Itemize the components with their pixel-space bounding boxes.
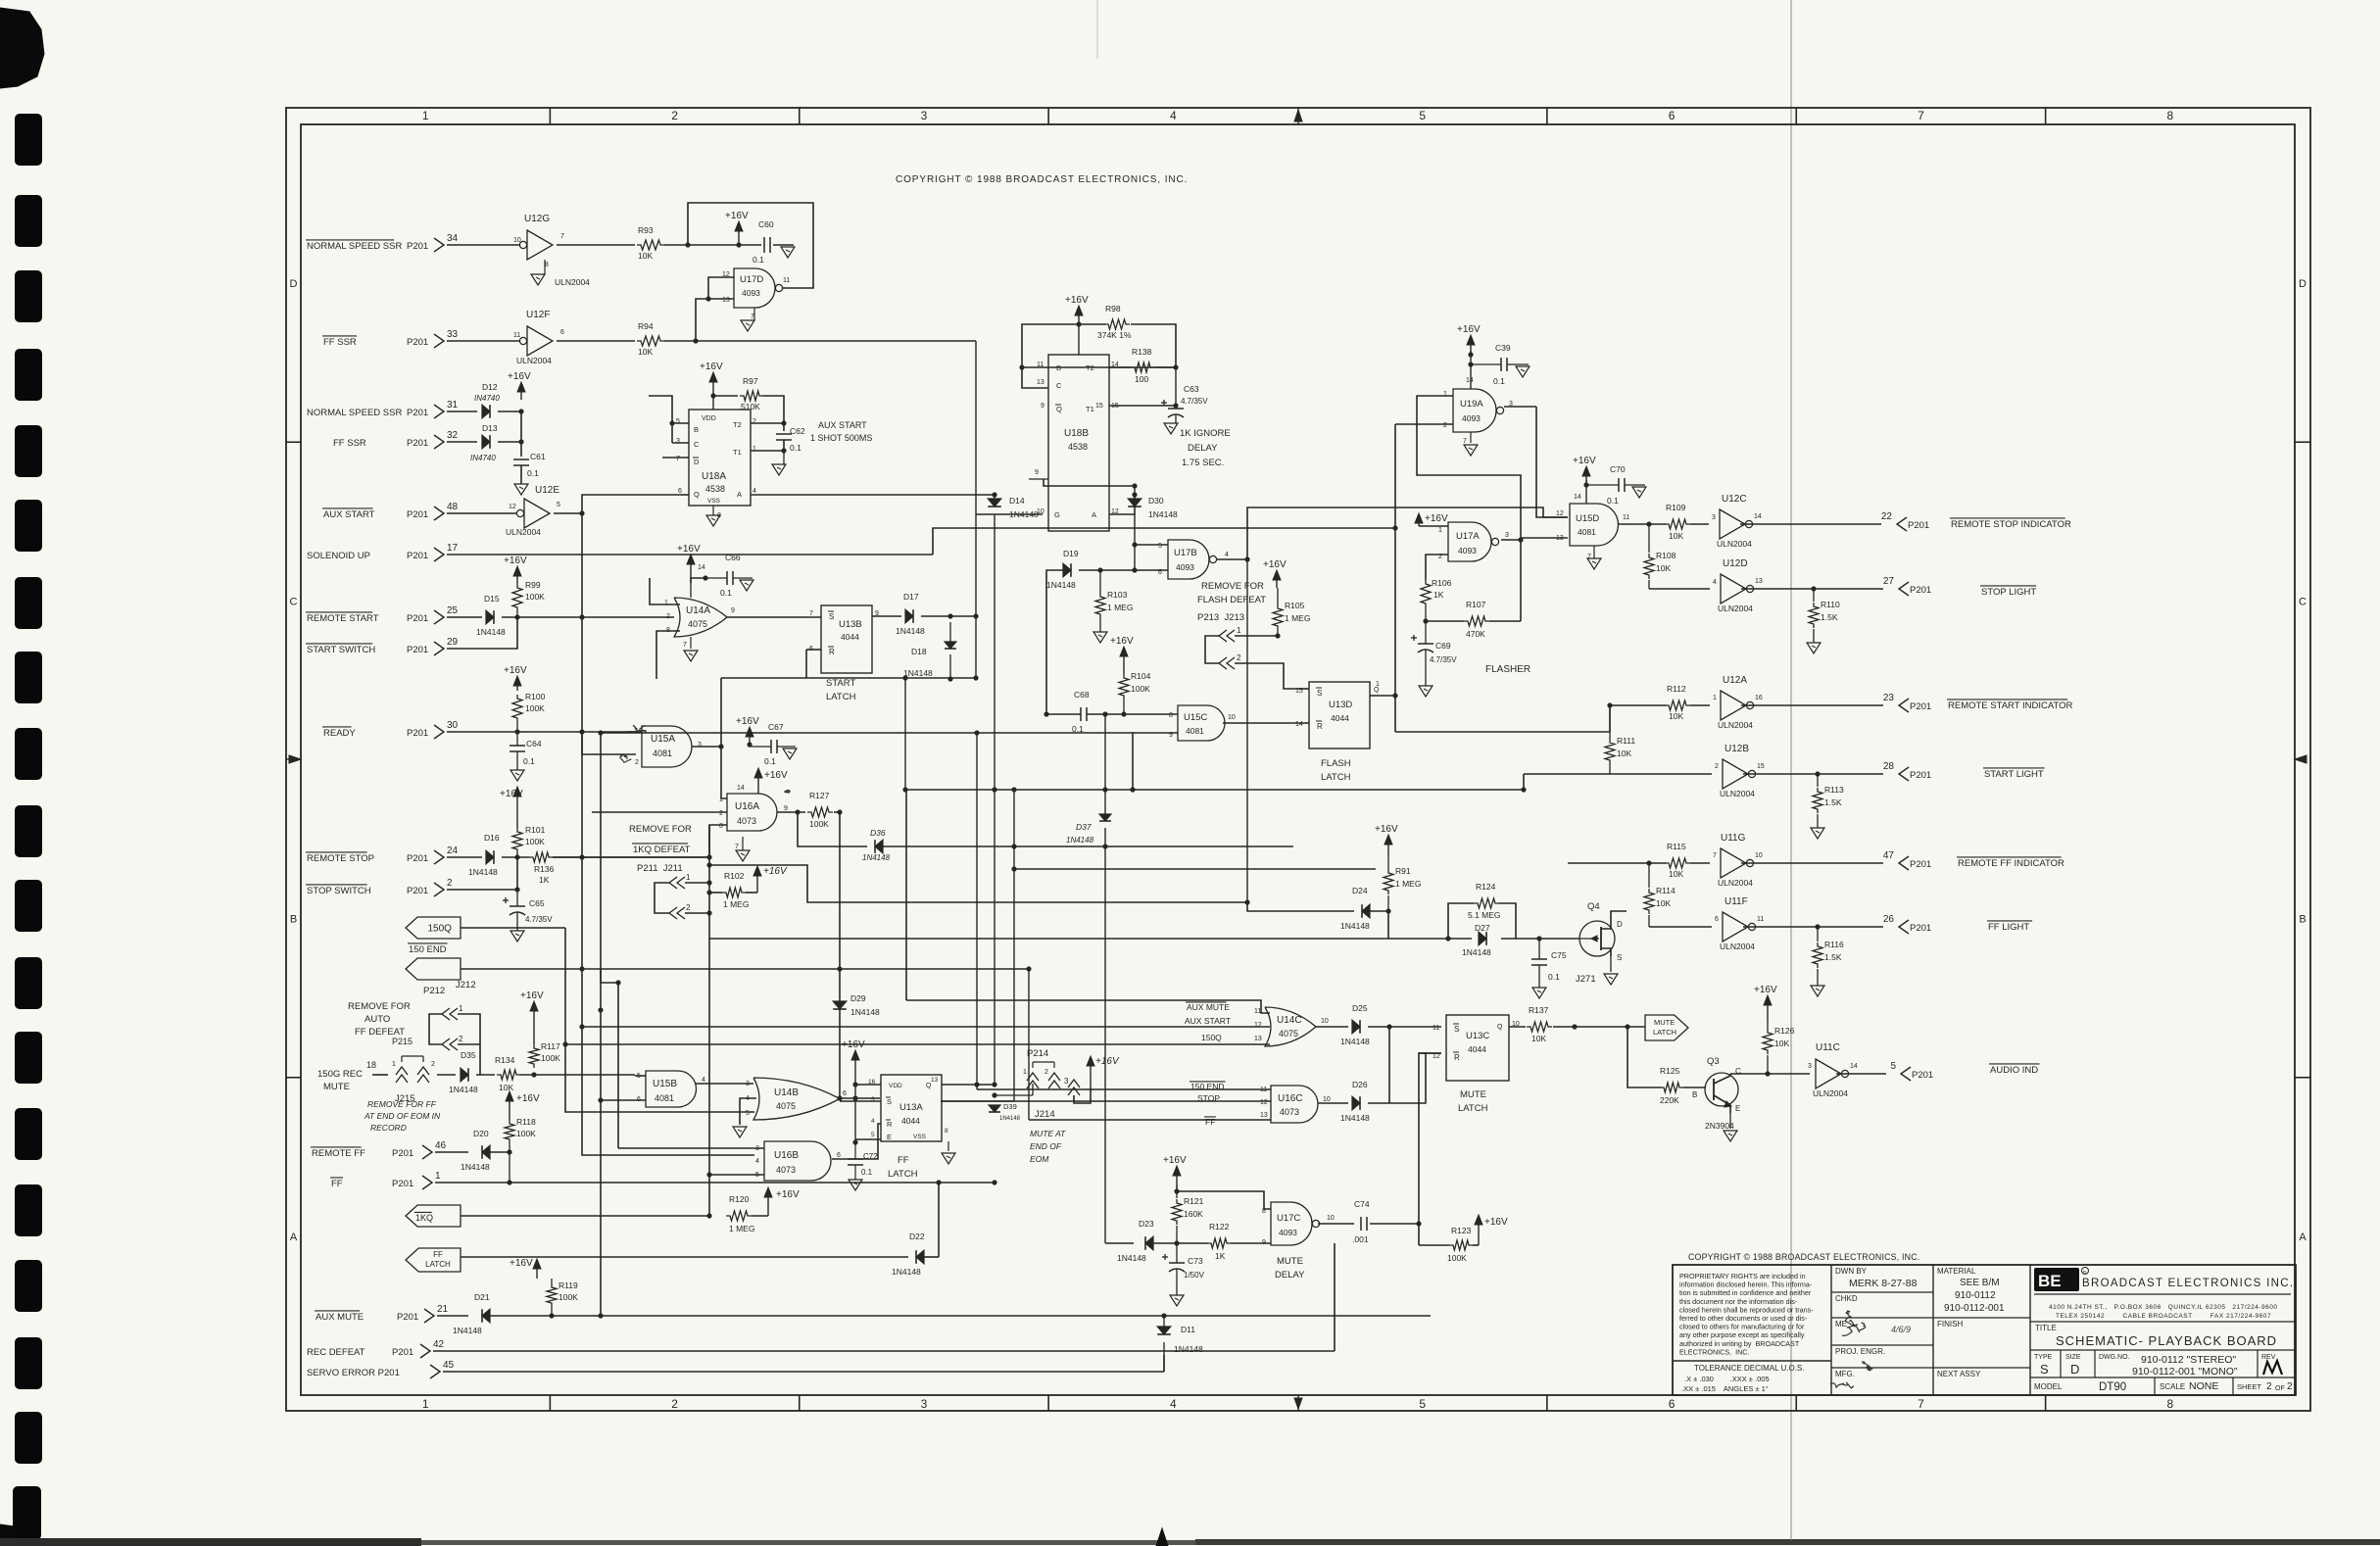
svg-text:100: 100 (1135, 374, 1148, 384)
svg-text:U17A: U17A (1456, 531, 1480, 542)
svg-text:+16V: +16V (776, 1189, 800, 1200)
svg-text:1N4148: 1N4148 (1462, 947, 1491, 957)
svg-text:C73: C73 (1188, 1256, 1203, 1266)
svg-text:U13C: U13C (1466, 1031, 1489, 1041)
svg-text:D39: D39 (1003, 1102, 1017, 1111)
svg-text:0.1: 0.1 (1607, 496, 1619, 506)
svg-text:15: 15 (1757, 763, 1765, 770)
svg-text:R99: R99 (525, 580, 541, 590)
svg-text:2: 2 (719, 810, 723, 817)
svg-text:14: 14 (737, 785, 745, 792)
svg-text:S: S (2040, 1362, 2049, 1377)
svg-text:FINISH: FINISH (1937, 1320, 1963, 1329)
svg-text:J214: J214 (1035, 1109, 1055, 1120)
svg-text:5.1 MEG: 5.1 MEG (1468, 910, 1501, 920)
svg-text:0.1: 0.1 (764, 756, 776, 766)
svg-text:J212: J212 (456, 980, 476, 990)
svg-text:3: 3 (1505, 532, 1509, 539)
svg-text:E: E (1735, 1104, 1740, 1113)
svg-text:FF SSR: FF SSR (323, 337, 357, 348)
svg-text:B: B (290, 914, 297, 926)
svg-text:13: 13 (1254, 1036, 1262, 1042)
svg-text:ULN2004: ULN2004 (1720, 942, 1755, 951)
svg-text:3: 3 (746, 1081, 750, 1087)
svg-text:100K: 100K (525, 592, 545, 602)
svg-text:4075: 4075 (776, 1101, 796, 1111)
svg-text:13: 13 (722, 297, 730, 304)
svg-text:U12A: U12A (1723, 675, 1747, 686)
svg-text:S: S (829, 612, 834, 621)
svg-text:P201: P201 (1910, 859, 1931, 870)
svg-text:9: 9 (731, 607, 735, 614)
svg-text:C: C (290, 596, 298, 607)
svg-text:4075: 4075 (688, 619, 707, 629)
svg-text:1N4148: 1N4148 (461, 1162, 490, 1172)
svg-text:6: 6 (1669, 109, 1676, 122)
svg-text:G: G (1054, 510, 1060, 519)
svg-text:4/6/9: 4/6/9 (1891, 1325, 1911, 1334)
svg-text:SCHEMATIC- PLAYBACK BOARD: SCHEMATIC- PLAYBACK BOARD (2056, 1333, 2277, 1348)
svg-text:T1: T1 (1086, 405, 1094, 413)
svg-text:1: 1 (686, 873, 691, 882)
svg-text:AUX START: AUX START (818, 420, 867, 430)
svg-text:1K IGNORE: 1K IGNORE (1180, 428, 1231, 439)
svg-text:R134: R134 (495, 1055, 515, 1065)
svg-text:4044: 4044 (901, 1116, 920, 1126)
svg-text:1N4148: 1N4148 (862, 853, 891, 862)
svg-text:3: 3 (676, 438, 680, 445)
svg-text:R: R (1317, 722, 1323, 731)
svg-text:2: 2 (1443, 422, 1447, 429)
svg-text:U12G: U12G (524, 214, 550, 224)
svg-text:24: 24 (447, 845, 459, 856)
svg-text:+16V: +16V (1425, 513, 1448, 524)
svg-text:ULN2004: ULN2004 (506, 527, 541, 537)
svg-text:U12E: U12E (535, 485, 559, 496)
svg-text:1: 1 (422, 1397, 429, 1411)
svg-text:1: 1 (1023, 1069, 1027, 1076)
svg-text:910-0112-001: 910-0112-001 (1944, 1303, 2005, 1314)
svg-text:OF: OF (2275, 1385, 2285, 1392)
svg-text:D27: D27 (1475, 923, 1490, 933)
svg-text:8: 8 (2166, 109, 2173, 122)
svg-text:R119: R119 (559, 1280, 578, 1290)
svg-text:C72: C72 (863, 1152, 878, 1161)
svg-text:1N4148: 1N4148 (453, 1326, 482, 1335)
svg-text:DELAY: DELAY (1188, 443, 1218, 454)
svg-text:4.7/35V: 4.7/35V (1430, 655, 1457, 664)
svg-text:MUTE: MUTE (1277, 1256, 1303, 1267)
svg-text:NONE: NONE (2189, 1380, 2218, 1392)
svg-text:7: 7 (809, 610, 813, 617)
svg-text:4: 4 (1225, 552, 1229, 558)
svg-text:+16V: +16V (677, 544, 701, 555)
svg-text:DELAY: DELAY (1275, 1270, 1305, 1280)
svg-text:3: 3 (921, 1397, 928, 1411)
svg-text:23: 23 (1883, 693, 1895, 703)
svg-text:REMOVE FOR: REMOVE FOR (348, 1001, 411, 1012)
svg-text:8: 8 (1169, 712, 1173, 719)
svg-text:R104: R104 (1131, 671, 1151, 681)
svg-text:FLASHER: FLASHER (1485, 664, 1530, 675)
svg-text:0.1: 0.1 (523, 756, 535, 766)
svg-text:R108: R108 (1656, 551, 1676, 560)
svg-text:+16V: +16V (725, 211, 749, 221)
svg-text:2: 2 (1715, 763, 1719, 770)
svg-text:+16V: +16V (764, 770, 788, 781)
svg-text:P214: P214 (1027, 1048, 1048, 1059)
svg-text:D22: D22 (909, 1232, 925, 1241)
svg-text:10: 10 (1327, 1215, 1335, 1222)
svg-text:E: E (887, 1133, 892, 1141)
svg-text:2: 2 (1044, 1069, 1048, 1076)
svg-text:SEE B/M: SEE B/M (1960, 1278, 2000, 1288)
svg-text:3: 3 (1064, 1077, 1069, 1086)
svg-text:5: 5 (1419, 109, 1426, 122)
svg-text:10K: 10K (1617, 749, 1631, 758)
svg-text:B: B (1692, 1090, 1697, 1099)
svg-text:4073: 4073 (776, 1165, 796, 1175)
svg-text:10K: 10K (638, 347, 653, 357)
svg-text:C63: C63 (1184, 384, 1199, 394)
svg-text:17: 17 (447, 543, 459, 554)
svg-text:R126: R126 (1774, 1026, 1795, 1036)
svg-text:25: 25 (447, 605, 459, 616)
svg-text:AUX MUTE: AUX MUTE (316, 1312, 364, 1323)
svg-text:P201: P201 (1908, 520, 1929, 531)
svg-text:100K: 100K (541, 1053, 560, 1063)
svg-text:R109: R109 (1666, 503, 1686, 512)
svg-text:C67: C67 (768, 722, 784, 732)
svg-text:+16V: +16V (736, 716, 759, 727)
svg-text:150Q: 150Q (1201, 1033, 1222, 1042)
svg-text:Q3: Q3 (1707, 1056, 1720, 1067)
svg-text:FF: FF (331, 1179, 343, 1189)
svg-text:1: 1 (435, 1171, 441, 1182)
svg-text:LATCH: LATCH (1653, 1028, 1676, 1037)
svg-text:D18: D18 (911, 647, 927, 656)
svg-text:SHEET: SHEET (2237, 1382, 2261, 1391)
svg-text:REMOTE START: REMOTE START (307, 613, 379, 624)
svg-text:2: 2 (671, 109, 678, 122)
svg-text:3: 3 (698, 742, 702, 749)
svg-text:R116: R116 (1824, 940, 1844, 949)
svg-text:4044: 4044 (1468, 1044, 1486, 1054)
svg-text:160K: 160K (1184, 1209, 1203, 1219)
svg-text:4538: 4538 (705, 484, 725, 494)
svg-text:R101: R101 (525, 825, 546, 835)
svg-text:Q: Q (1497, 1024, 1503, 1031)
svg-text:4075: 4075 (1279, 1029, 1298, 1039)
svg-text:4081: 4081 (1578, 527, 1596, 537)
svg-text:R137: R137 (1529, 1005, 1549, 1015)
svg-text:AUX MUTE: AUX MUTE (1187, 1002, 1230, 1012)
svg-text:ULN2004: ULN2004 (555, 277, 590, 287)
svg-text:8: 8 (719, 823, 723, 830)
svg-text:FF: FF (433, 1250, 443, 1259)
svg-text:SOLENOID UP: SOLENOID UP (307, 551, 370, 561)
svg-text:6: 6 (837, 1152, 841, 1159)
svg-text:1N4148: 1N4148 (1148, 509, 1178, 519)
svg-text:REMOTE STOP: REMOTE STOP (307, 853, 374, 864)
svg-text:14: 14 (1574, 494, 1581, 501)
svg-text:4073: 4073 (737, 816, 756, 826)
svg-text:10K: 10K (638, 251, 653, 261)
svg-text:100K: 100K (525, 703, 545, 713)
svg-text:2: 2 (2266, 1381, 2272, 1392)
svg-text:NORMAL SPEED SSR: NORMAL SPEED SSR (307, 241, 402, 252)
svg-text:R: R (829, 648, 835, 656)
svg-text:U17C: U17C (1277, 1213, 1300, 1224)
svg-text:R125: R125 (1660, 1066, 1680, 1076)
svg-text:START: START (826, 678, 855, 689)
svg-text:2: 2 (447, 878, 453, 889)
svg-text:MUTE: MUTE (1460, 1089, 1486, 1100)
svg-text:1N4148: 1N4148 (1340, 1037, 1370, 1046)
svg-text:1/50V: 1/50V (1184, 1271, 1205, 1280)
svg-text:C60: C60 (758, 219, 774, 229)
svg-text:R136: R136 (534, 864, 555, 874)
svg-text:+16V: +16V (500, 789, 523, 799)
svg-text:34: 34 (447, 233, 459, 244)
svg-text:ULN2004: ULN2004 (1813, 1088, 1848, 1098)
svg-text:U15A: U15A (651, 734, 675, 745)
svg-text:BE: BE (2038, 1272, 2062, 1290)
svg-text:REV: REV (2261, 1354, 2276, 1361)
svg-text:11: 11 (1757, 916, 1764, 923)
svg-text:S: S (1317, 689, 1322, 698)
svg-text:1: 1 (664, 600, 668, 606)
svg-text:10: 10 (1037, 508, 1044, 515)
svg-text:1N4148: 1N4148 (1066, 836, 1094, 845)
svg-text:12: 12 (1260, 1099, 1268, 1106)
svg-text:10: 10 (1228, 714, 1236, 721)
svg-text:+16V: +16V (1457, 324, 1481, 335)
svg-text:IN4740: IN4740 (474, 394, 500, 403)
svg-text:REC DEFEAT: REC DEFEAT (307, 1347, 365, 1358)
svg-text:U14A: U14A (686, 605, 710, 616)
svg-text:374K 1%: 374K 1% (1097, 330, 1132, 340)
svg-text:4: 4 (1170, 109, 1177, 122)
svg-text:1: 1 (1438, 527, 1442, 534)
svg-text:4073: 4073 (1280, 1107, 1299, 1117)
svg-text:U11F: U11F (1724, 896, 1748, 907)
svg-text:U13A: U13A (899, 1102, 923, 1113)
svg-text:1 MEG: 1 MEG (723, 899, 749, 909)
svg-text:R118: R118 (516, 1117, 536, 1127)
svg-text:2: 2 (666, 613, 670, 620)
svg-text:FF LIGHT: FF LIGHT (1988, 922, 2029, 933)
svg-text:5: 5 (676, 418, 680, 425)
svg-text:R94: R94 (638, 321, 654, 331)
svg-text:1 SHOT 500MS: 1 SHOT 500MS (810, 433, 872, 443)
svg-text:P201: P201 (407, 613, 428, 624)
svg-text:D14: D14 (1009, 496, 1025, 506)
svg-text:R107: R107 (1466, 600, 1486, 609)
svg-text:P201: P201 (1912, 1070, 1933, 1081)
svg-text:P201: P201 (1910, 770, 1931, 781)
svg-text:AUX START: AUX START (1185, 1016, 1231, 1026)
svg-text:FF: FF (898, 1155, 909, 1166)
svg-text:D25: D25 (1352, 1003, 1368, 1013)
svg-text:1N4148: 1N4148 (468, 867, 498, 877)
svg-text:R106: R106 (1432, 578, 1452, 588)
svg-text:4: 4 (871, 1118, 875, 1125)
svg-text:REMOTE STOP INDICATOR: REMOTE STOP INDICATOR (1951, 519, 2071, 530)
svg-text:30: 30 (447, 720, 459, 731)
svg-text:8: 8 (2166, 1397, 2173, 1411)
svg-text:ULN2004: ULN2004 (1720, 789, 1755, 798)
svg-text:P201: P201 (407, 337, 428, 348)
svg-text:D35: D35 (461, 1050, 476, 1060)
svg-text:LATCH: LATCH (888, 1169, 918, 1180)
svg-text:7: 7 (676, 456, 680, 462)
svg-text:R110: R110 (1821, 600, 1840, 609)
svg-text:R103: R103 (1107, 590, 1128, 600)
svg-text:D: D (1617, 920, 1623, 929)
svg-text:R: R (887, 1120, 893, 1129)
svg-text:6: 6 (1715, 916, 1719, 923)
svg-text:P201: P201 (407, 853, 428, 864)
svg-text:REMOTE START INDICATOR: REMOTE START INDICATOR (1948, 701, 2073, 711)
svg-text:P201: P201 (392, 1179, 413, 1189)
svg-text:VDD: VDD (889, 1083, 902, 1089)
svg-text:REMOTE FF: REMOTE FF (312, 1148, 365, 1159)
svg-text:100K: 100K (525, 837, 545, 846)
svg-text:U16B: U16B (774, 1150, 799, 1161)
svg-text:MFG.: MFG. (1835, 1370, 1855, 1378)
svg-text:R111: R111 (1617, 736, 1635, 746)
svg-text:0.1: 0.1 (1548, 972, 1560, 982)
svg-text:U14B: U14B (774, 1087, 799, 1098)
svg-text:P213 J213: P213 J213 (1197, 612, 1244, 623)
svg-text:P201: P201 (407, 886, 428, 896)
svg-text:150Q: 150Q (427, 924, 452, 935)
svg-text:CHKD: CHKD (1835, 1294, 1858, 1303)
svg-text:D36: D36 (870, 828, 886, 838)
svg-text:B: B (2299, 914, 2306, 926)
svg-text:7: 7 (560, 233, 564, 240)
svg-text:1: 1 (1443, 391, 1447, 398)
svg-text:D: D (694, 458, 700, 466)
svg-text:C66: C66 (725, 553, 741, 562)
svg-text:5: 5 (746, 1110, 750, 1117)
svg-text:1N4148: 1N4148 (892, 1267, 921, 1277)
svg-text:MODEL: MODEL (2034, 1382, 2063, 1391)
svg-text:DWG.NO.: DWG.NO. (2099, 1354, 2130, 1361)
svg-text:C65: C65 (529, 898, 545, 908)
svg-text:27: 27 (1883, 576, 1895, 587)
svg-text:1 MEG: 1 MEG (1395, 879, 1421, 889)
svg-text:18: 18 (366, 1060, 376, 1070)
svg-text:READY: READY (323, 728, 356, 739)
svg-text:10: 10 (1321, 1018, 1329, 1025)
svg-text:4.7/35V: 4.7/35V (525, 915, 553, 924)
svg-text:R113: R113 (1824, 785, 1844, 795)
svg-text:LATCH: LATCH (1321, 772, 1351, 783)
svg-text:Q: Q (1056, 405, 1062, 413)
svg-text:28: 28 (1883, 761, 1895, 772)
svg-text:0.1: 0.1 (720, 588, 732, 598)
svg-text:1.75 SEC.: 1.75 SEC. (1182, 458, 1224, 468)
svg-text:BROADCAST ELECTRONICS INC.: BROADCAST ELECTRONICS INC. (2082, 1278, 2294, 1289)
svg-text:5: 5 (1890, 1061, 1896, 1072)
svg-text:1 MEG: 1 MEG (729, 1224, 754, 1233)
svg-text:U19A: U19A (1460, 399, 1483, 410)
svg-text:1K: 1K (539, 875, 550, 885)
svg-text:+16V: +16V (504, 665, 527, 676)
svg-text:TELEX 250142 CABLE BROA: TELEX 250142 CABLE BROADCAST FAX 217/224… (2056, 1313, 2271, 1320)
svg-text:13: 13 (1556, 535, 1564, 542)
svg-text:COPYRIGHT © 1988 BROADCAST ELE: COPYRIGHT © 1988 BROADCAST ELECTRONICS, … (1688, 1252, 1919, 1262)
svg-text:+16V: +16V (700, 362, 723, 372)
svg-text:+16V: +16V (763, 866, 788, 877)
svg-text:150 END: 150 END (409, 944, 447, 955)
svg-text:Q: Q (1374, 687, 1380, 694)
svg-text:P201: P201 (1910, 585, 1931, 596)
svg-text:0.1: 0.1 (790, 443, 801, 453)
svg-text:D16: D16 (484, 833, 500, 843)
svg-text:LATCH: LATCH (425, 1260, 451, 1269)
svg-text:C69: C69 (1435, 641, 1451, 651)
svg-text:J271: J271 (1576, 974, 1596, 985)
svg-text:S: S (1617, 953, 1622, 962)
svg-text:150G REC: 150G REC (317, 1069, 363, 1080)
svg-text:D24: D24 (1352, 886, 1368, 895)
svg-text:SERVO ERROR P201: SERVO ERROR P201 (307, 1368, 400, 1378)
svg-text:NEXT ASSY: NEXT ASSY (1937, 1370, 1981, 1378)
svg-text:910-0112-001 "MONO": 910-0112-001 "MONO" (2132, 1366, 2238, 1377)
svg-text:14: 14 (1466, 377, 1474, 384)
svg-text:R112: R112 (1667, 684, 1686, 694)
svg-text:ULN2004: ULN2004 (1718, 878, 1753, 888)
svg-text:14: 14 (1295, 721, 1303, 728)
svg-text:+16V: +16V (1375, 824, 1398, 835)
svg-text:R123: R123 (1451, 1226, 1472, 1235)
svg-text:D13: D13 (482, 423, 498, 433)
svg-text:10K: 10K (1669, 711, 1683, 721)
svg-text:+16V: +16V (508, 371, 531, 382)
svg-text:3: 3 (1808, 1063, 1812, 1070)
svg-text:7: 7 (1713, 852, 1717, 859)
svg-text:P201: P201 (407, 728, 428, 739)
svg-text:MATERIAL: MATERIAL (1937, 1267, 1976, 1276)
svg-text:4093: 4093 (1462, 413, 1481, 423)
svg-text:U12C: U12C (1722, 494, 1747, 505)
svg-text:+16V: +16V (504, 556, 527, 566)
svg-text:D11: D11 (1181, 1325, 1195, 1334)
svg-text:2: 2 (753, 418, 756, 425)
svg-text:5: 5 (1158, 543, 1162, 550)
svg-text:NORMAL SPEED SSR: NORMAL SPEED SSR (307, 408, 402, 418)
svg-text:4538: 4538 (1068, 442, 1088, 452)
svg-text:100K: 100K (516, 1129, 536, 1138)
svg-text:ULN2004: ULN2004 (1718, 720, 1753, 730)
svg-text:REMOVE FOR FF: REMOVE FOR FF (367, 1099, 437, 1109)
svg-text:5: 5 (1419, 1397, 1426, 1411)
svg-text:P201: P201 (407, 408, 428, 418)
svg-text:R117: R117 (541, 1041, 560, 1051)
svg-text:1K: 1K (1215, 1251, 1226, 1261)
svg-text:13: 13 (1260, 1112, 1268, 1119)
svg-text:TYPE: TYPE (2034, 1354, 2053, 1361)
svg-text:10K: 10K (1531, 1034, 1546, 1043)
svg-text:U11G: U11G (1721, 833, 1746, 844)
svg-text:12: 12 (1556, 510, 1564, 517)
svg-text:42: 42 (433, 1339, 445, 1350)
svg-text:7: 7 (1918, 1397, 1924, 1411)
svg-text:10: 10 (513, 237, 521, 244)
